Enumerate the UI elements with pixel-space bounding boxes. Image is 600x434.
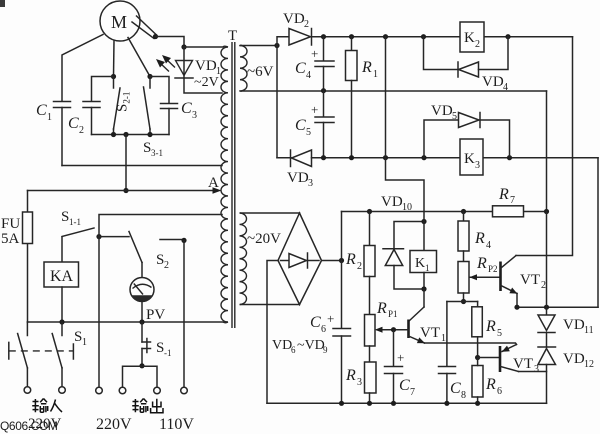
svg-text:6: 6 bbox=[321, 324, 326, 335]
svg-text:C: C bbox=[181, 100, 192, 117]
svg-text:1: 1 bbox=[373, 69, 378, 80]
svg-text:R: R bbox=[376, 300, 387, 317]
svg-text:P1: P1 bbox=[388, 309, 398, 319]
svg-text:+: + bbox=[327, 311, 334, 326]
svg-text:R: R bbox=[476, 255, 487, 272]
svg-text:4: 4 bbox=[486, 240, 491, 251]
svg-text:PV: PV bbox=[146, 307, 165, 323]
svg-text:2: 2 bbox=[475, 39, 480, 50]
svg-text:3: 3 bbox=[534, 364, 539, 375]
svg-text:4: 4 bbox=[503, 82, 508, 93]
wire S2 to 110V terminal bbox=[183, 240, 185, 387]
svg-text:C: C bbox=[450, 380, 461, 397]
motor M bbox=[100, 1, 140, 41]
svg-text:8: 8 bbox=[461, 390, 466, 401]
wire line A with arrow bbox=[28, 175, 222, 194]
terminal circles bbox=[24, 387, 187, 394]
svg-text:FU: FU bbox=[1, 216, 20, 232]
diode VD11 bbox=[538, 307, 594, 347]
label VD10 bbox=[381, 194, 412, 213]
node 6V top junction bbox=[274, 37, 291, 158]
wire VT1 emitter line bbox=[425, 343, 517, 345]
svg-text:7: 7 bbox=[410, 387, 415, 398]
wire bridge minus leg bbox=[267, 261, 278, 404]
potentiometer RP1 bbox=[365, 277, 398, 347]
svg-text:+: + bbox=[397, 350, 404, 365]
resistor R1 bbox=[346, 37, 379, 158]
svg-text:7: 7 bbox=[510, 195, 515, 206]
svg-text:VT: VT bbox=[520, 272, 540, 288]
transformer core bbox=[228, 28, 237, 328]
diode VD3 bbox=[287, 150, 313, 189]
relay K2 with rail bbox=[421, 22, 511, 52]
svg-text:R: R bbox=[485, 318, 496, 335]
label input (Chinese) bbox=[32, 399, 62, 413]
svg-text:A: A bbox=[208, 175, 219, 191]
svg-text:VT: VT bbox=[420, 325, 440, 341]
svg-text:+: + bbox=[311, 46, 318, 61]
wire K3 rail jog to K1 bbox=[386, 158, 425, 251]
svg-text:C: C bbox=[310, 314, 321, 331]
node rail under capacitors bbox=[92, 132, 170, 137]
mid rail from 6V bottom bbox=[321, 88, 326, 93]
svg-text:VD: VD bbox=[283, 11, 305, 27]
svg-text:4: 4 bbox=[306, 70, 311, 81]
svg-text:R: R bbox=[474, 230, 485, 247]
svg-text:2: 2 bbox=[541, 280, 546, 291]
svg-text:110V: 110V bbox=[159, 416, 194, 433]
wire center drop to line A bbox=[123, 135, 128, 194]
svg-text:K: K bbox=[464, 151, 475, 167]
svg-text:~6V: ~6V bbox=[247, 64, 274, 80]
svg-text:VD: VD bbox=[563, 317, 585, 333]
fuse FU 5A bbox=[1, 191, 33, 323]
svg-text:10: 10 bbox=[402, 202, 412, 213]
svg-text:K: K bbox=[415, 256, 425, 271]
capacitor C4 bbox=[295, 37, 334, 91]
right vertical K3 rail to emitter node bbox=[547, 158, 599, 308]
mid rail corner down to R7 bbox=[546, 91, 548, 212]
svg-text:220V: 220V bbox=[96, 416, 132, 433]
transformer 20V secondary bbox=[240, 213, 300, 305]
svg-text:T: T bbox=[228, 28, 237, 44]
svg-text:VD: VD bbox=[381, 194, 403, 210]
wire top rail to K3 rail bbox=[385, 37, 387, 158]
svg-text:VD: VD bbox=[482, 74, 504, 90]
svg-text:3: 3 bbox=[475, 160, 480, 171]
svg-text:C: C bbox=[295, 60, 306, 77]
svg-text:R: R bbox=[498, 186, 509, 203]
resistor R7 bbox=[493, 186, 524, 217]
svg-text:VT: VT bbox=[513, 356, 533, 372]
wire motor third lead bbox=[128, 38, 153, 80]
relay coil KA bbox=[44, 262, 79, 322]
diode VD4 loop bbox=[424, 37, 509, 93]
svg-text:2: 2 bbox=[357, 261, 362, 272]
switch S-1 bbox=[139, 322, 171, 368]
label 220V input bbox=[28, 416, 62, 432]
svg-text:2: 2 bbox=[164, 260, 169, 271]
svg-text:VD: VD bbox=[287, 170, 309, 186]
svg-text:9: 9 bbox=[323, 345, 328, 355]
svg-text:1: 1 bbox=[82, 337, 87, 348]
capacitor C7 bbox=[385, 330, 416, 404]
resistor R4 bbox=[458, 212, 491, 252]
label output (Chinese) bbox=[132, 399, 163, 413]
node line RP2 bottom bbox=[447, 301, 478, 303]
wire R7 to emitter node bbox=[546, 212, 548, 308]
svg-text:5: 5 bbox=[306, 127, 311, 138]
capacitor C6 bbox=[310, 212, 351, 404]
svg-text:VD: VD bbox=[431, 103, 453, 119]
relay K3 bbox=[460, 139, 483, 175]
svg-text:KA: KA bbox=[50, 268, 74, 285]
svg-text:M: M bbox=[111, 12, 127, 32]
lower DC rail to K3 bbox=[312, 155, 599, 160]
svg-text:R: R bbox=[345, 367, 356, 384]
svg-text:C: C bbox=[399, 377, 410, 394]
svg-text:VD: VD bbox=[272, 338, 292, 353]
diode VD5 loop bbox=[421, 103, 512, 160]
capacitor C3 bbox=[150, 77, 197, 135]
svg-text:~20V: ~20V bbox=[247, 231, 281, 247]
node R5 R6 junction bbox=[475, 355, 499, 360]
svg-text:3: 3 bbox=[308, 178, 313, 189]
capacitor C2 bbox=[68, 77, 114, 137]
wire bridge plus to C6 line bbox=[322, 258, 345, 263]
svg-text:~VD: ~VD bbox=[297, 338, 325, 353]
svg-text:1-1: 1-1 bbox=[69, 217, 81, 227]
svg-text:C: C bbox=[68, 115, 79, 132]
bridge rectifier VD6~VD9 bbox=[272, 213, 328, 355]
wire double lead motor to VD1 branch bbox=[132, 16, 187, 50]
switch S3-1 bbox=[143, 77, 163, 159]
transistor VT2 bbox=[501, 256, 547, 308]
svg-text:+: + bbox=[311, 102, 318, 117]
voltmeter PV bbox=[130, 278, 165, 324]
capacitor C5 bbox=[295, 91, 334, 158]
svg-text:2: 2 bbox=[79, 125, 84, 136]
LED VD1 bbox=[156, 47, 222, 93]
resistor R2 bbox=[345, 212, 375, 277]
svg-text:C: C bbox=[36, 102, 47, 119]
svg-text:~2V: ~2V bbox=[194, 75, 219, 90]
svg-text:-1: -1 bbox=[164, 348, 172, 358]
transformer 6V secondary bbox=[240, 45, 547, 91]
svg-text:3-1: 3-1 bbox=[151, 148, 163, 158]
wire to transformer top bbox=[184, 46, 223, 48]
svg-text:C: C bbox=[295, 117, 306, 134]
relay K1 bbox=[410, 251, 437, 292]
transistor VT1 bbox=[391, 289, 446, 344]
label 110V output bbox=[159, 416, 194, 433]
transistor VT3 bbox=[500, 345, 539, 376]
svg-text:6: 6 bbox=[497, 386, 502, 397]
wire S1-1 node to terminal bbox=[98, 237, 100, 387]
wire VT3 collector to VD12 leg bbox=[519, 371, 547, 373]
resistor R6 bbox=[472, 358, 502, 404]
switch S2 selector to PV bbox=[99, 232, 187, 278]
rail R7 feed bbox=[342, 209, 550, 214]
capacitor C1 bbox=[36, 102, 71, 166]
svg-text:Q606.COM: Q606.COM bbox=[0, 419, 58, 433]
svg-text:12: 12 bbox=[584, 359, 594, 370]
transformer T primary winding bbox=[221, 46, 228, 323]
potentiometer RP2 bbox=[458, 251, 500, 304]
svg-text:6: 6 bbox=[291, 345, 296, 355]
svg-text:1: 1 bbox=[425, 263, 430, 273]
label 220V output bbox=[96, 416, 132, 433]
svg-text:K: K bbox=[464, 30, 475, 46]
scan corner artifact bbox=[0, 0, 5, 7]
svg-text:5: 5 bbox=[497, 328, 502, 339]
bottom rail bbox=[267, 401, 547, 406]
svg-text:P2: P2 bbox=[488, 264, 498, 274]
switch S1 two pole bbox=[9, 322, 87, 386]
right vertical from top rail to VT2 collector bbox=[516, 37, 573, 256]
svg-text:5A: 5A bbox=[1, 231, 20, 247]
diode VD12 bbox=[538, 347, 594, 403]
resistor R5 bbox=[472, 302, 502, 358]
capacitor C8 bbox=[439, 302, 467, 404]
wire motor to C1 bbox=[62, 35, 103, 101]
wire C1 to transformer tap bbox=[62, 165, 222, 167]
output bracket wires bbox=[123, 366, 158, 387]
svg-text:11: 11 bbox=[584, 325, 594, 336]
switch S2-1 bbox=[114, 77, 132, 135]
main lower rail bbox=[28, 319, 228, 324]
switch S1-1 bbox=[61, 209, 102, 262]
svg-text:2: 2 bbox=[304, 19, 309, 30]
svg-text:R: R bbox=[485, 376, 496, 393]
watermark Q606.COM bbox=[0, 419, 58, 433]
diode VD2 bbox=[283, 11, 312, 45]
svg-text:VD: VD bbox=[195, 58, 217, 74]
svg-text:3: 3 bbox=[192, 110, 197, 121]
svg-text:VD: VD bbox=[563, 351, 585, 367]
wire motor bottom lead bbox=[111, 41, 116, 79]
zener VD10 bbox=[383, 219, 427, 289]
svg-text:R: R bbox=[361, 59, 372, 76]
emitter node line bbox=[514, 305, 598, 310]
svg-text:1: 1 bbox=[47, 112, 52, 123]
resistor R3 bbox=[345, 346, 376, 403]
wire S1-1 to transformer bottom tap bbox=[99, 215, 222, 237]
top DC rail bbox=[312, 34, 573, 39]
svg-text:5: 5 bbox=[452, 111, 457, 122]
svg-text:R: R bbox=[345, 251, 356, 268]
svg-text:3: 3 bbox=[357, 377, 362, 388]
